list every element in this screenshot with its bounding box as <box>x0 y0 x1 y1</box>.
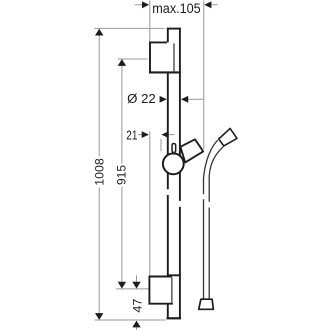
svg-text:1008: 1008 <box>93 158 107 185</box>
svg-text:max.105: max.105 <box>152 0 201 16</box>
svg-text:47: 47 <box>130 299 144 313</box>
svg-text:915: 915 <box>114 165 128 185</box>
svg-text:Ø 22: Ø 22 <box>127 92 156 106</box>
svg-text:21: 21 <box>126 127 137 142</box>
